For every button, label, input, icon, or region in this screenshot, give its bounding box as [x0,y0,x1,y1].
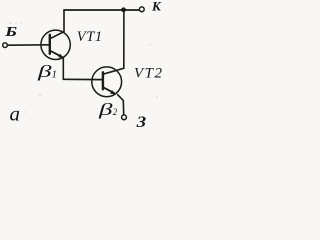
svg-text:1: 1 [52,69,58,81]
svg-text:3: 3 [135,114,146,129]
svg-text:Б: Б [4,25,17,40]
svg-text:2: 2 [113,107,118,117]
svg-text:VT2: VT2 [134,66,162,82]
svg-text:VT1: VT1 [77,29,103,45]
svg-text:К: К [151,0,162,14]
svg-text:а: а [10,102,21,126]
svg-text:β: β [97,100,113,119]
svg-text:β: β [36,62,52,81]
